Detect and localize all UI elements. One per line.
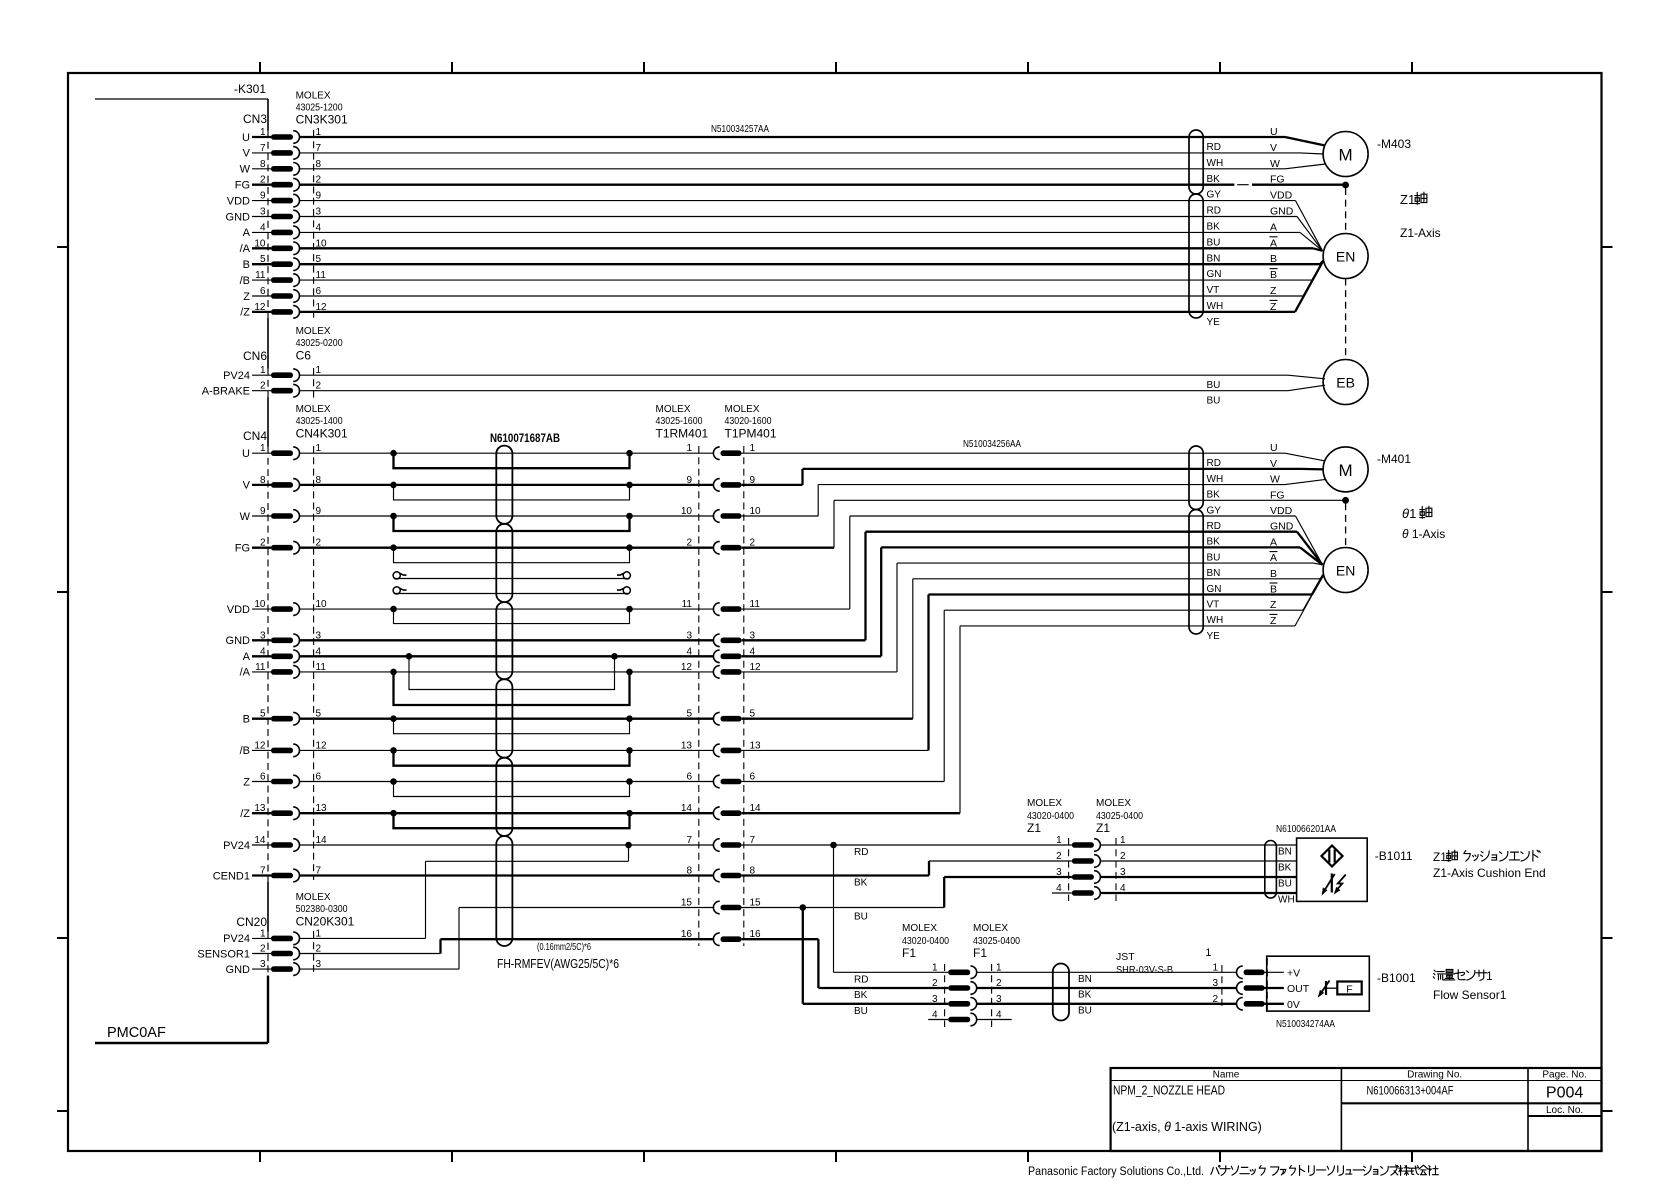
K301 bottom edge <box>95 1042 268 1044</box>
svg-text:EN: EN <box>1336 563 1355 579</box>
svg-text:MOLEX: MOLEX <box>296 326 331 337</box>
svg-text:T1RM401: T1RM401 <box>656 427 709 441</box>
svg-text:GND: GND <box>1270 521 1294 533</box>
wire BK to Z1.2 <box>929 860 1072 862</box>
Z1 boundary dashed left <box>1068 838 1070 901</box>
svg-text:1: 1 <box>1205 947 1211 959</box>
svg-text:W: W <box>240 164 251 176</box>
svg-text:3: 3 <box>260 959 266 970</box>
svg-text:1: 1 <box>686 443 692 454</box>
svg-text:Z1: Z1 <box>1433 850 1447 864</box>
svg-text:GND: GND <box>1270 206 1294 218</box>
twist loop VDD <box>394 609 630 624</box>
svg-text:EB: EB <box>1336 375 1355 391</box>
svg-text:12: 12 <box>254 740 266 751</box>
K301 boundary dashed at CN3 <box>267 131 269 319</box>
svg-text:WH: WH <box>1207 301 1224 312</box>
wires Z1 to B1011 <box>1101 844 1297 846</box>
svg-text:2: 2 <box>260 944 266 955</box>
cable shield Z1 motor <box>1189 130 1203 194</box>
svg-text:EN: EN <box>1336 249 1355 265</box>
svg-text:BK: BK <box>1278 863 1292 874</box>
svg-text:FG: FG <box>1270 489 1285 501</box>
svg-text:FG: FG <box>235 180 250 192</box>
svg-text:VT: VT <box>1207 600 1220 611</box>
svg-text:11: 11 <box>255 662 266 673</box>
svg-text:1: 1 <box>316 928 322 939</box>
spare wire <box>394 578 630 580</box>
wire θ1 GND staircase <box>742 639 866 641</box>
svg-text:4: 4 <box>316 222 322 233</box>
footer japanese company name <box>1211 1166 1220 1175</box>
svg-text:9: 9 <box>686 475 692 486</box>
svg-text:V: V <box>1270 142 1277 154</box>
wire CN6 A-BRAKE to EB <box>300 390 1288 392</box>
junction PV24 branch <box>625 842 632 849</box>
svg-text:VDD: VDD <box>1270 505 1293 517</box>
svg-text:FH-RMFEV(AWG25/5C)*6: FH-RMFEV(AWG25/5C)*6 <box>497 956 619 971</box>
svg-text:1: 1 <box>316 443 322 454</box>
svg-text:BU: BU <box>1207 396 1221 407</box>
svg-text:-B1001: -B1001 <box>1377 971 1416 985</box>
svg-text:U: U <box>242 132 250 144</box>
svg-text:PV24: PV24 <box>223 840 250 852</box>
svg-text:M: M <box>1339 461 1353 480</box>
svg-text:F1: F1 <box>973 946 987 960</box>
K301 boundary solid <box>267 882 269 932</box>
wire CN3 V to M403 <box>300 152 1300 154</box>
svg-text:13: 13 <box>681 740 693 751</box>
svg-text:43020-1600: 43020-1600 <box>725 416 772 427</box>
svg-text:BN: BN <box>1278 847 1292 858</box>
svg-text:N510034256AA: N510034256AA <box>963 438 1021 450</box>
svg-text:Z1: Z1 <box>1400 192 1415 207</box>
B1011 photo sensor icon <box>1331 874 1333 893</box>
svg-text:1: 1 <box>750 443 756 454</box>
svg-text:VT: VT <box>1207 285 1220 296</box>
svg-text:43025-1600: 43025-1600 <box>656 416 703 427</box>
svg-text:6: 6 <box>750 772 756 783</box>
cable shield JST <box>1053 964 1069 1021</box>
svg-text:0V: 0V <box>1287 999 1300 1011</box>
svg-text:7: 7 <box>686 835 692 846</box>
svg-text:VDD: VDD <box>227 604 250 616</box>
svg-text:15: 15 <box>681 898 693 909</box>
svg-text:Z: Z <box>1270 615 1277 627</box>
svg-text:-M401: -M401 <box>1377 452 1411 466</box>
svg-text:10: 10 <box>681 506 693 517</box>
axis dashed link M401-EN <box>1345 503 1347 547</box>
encoder EN (θ1) <box>1323 548 1368 593</box>
wire CN4 GND <box>300 639 714 641</box>
svg-text:10: 10 <box>254 599 266 610</box>
cable shield B1011 <box>1265 841 1277 899</box>
svg-text:WH: WH <box>1207 474 1224 485</box>
svg-text:Page. No.: Page. No. <box>1542 1070 1586 1081</box>
svg-text:BU: BU <box>1278 879 1292 890</box>
svg-text:MOLEX: MOLEX <box>1096 798 1131 809</box>
svg-text:MOLEX: MOLEX <box>973 923 1008 934</box>
svg-text:A: A <box>1270 552 1277 564</box>
CN20K301 mating boundary dashed <box>313 931 315 976</box>
svg-text:2: 2 <box>260 381 266 392</box>
spare hook left <box>393 587 400 594</box>
svg-text:CN4K301: CN4K301 <box>296 427 348 441</box>
svg-text:θ 1-Axis: θ 1-Axis <box>1402 527 1445 541</box>
twist loop W <box>394 516 630 531</box>
wire CN3 Z to EN <box>300 295 1303 297</box>
svg-text:11: 11 <box>316 270 327 281</box>
svg-text:10: 10 <box>750 506 762 517</box>
svg-text:1: 1 <box>996 962 1002 973</box>
svg-text:(0.16mm2/5C)*6: (0.16mm2/5C)*6 <box>537 941 591 953</box>
svg-text:CN3: CN3 <box>243 112 267 126</box>
junction BU branch <box>800 904 807 911</box>
axis dashed link M403-EN <box>1345 188 1347 233</box>
wire CEND1/BK <box>742 874 929 876</box>
wire θ1 U <box>742 452 1285 454</box>
K301 boundary dashed at CN4 <box>267 447 269 883</box>
svg-text:Z: Z <box>243 776 250 788</box>
svg-text:RD: RD <box>1207 521 1221 532</box>
svg-text:8: 8 <box>686 866 692 877</box>
FG junction node <box>1342 182 1349 189</box>
wire CN4 VDD <box>300 608 714 610</box>
svg-text:B: B <box>1270 269 1277 281</box>
node K301 board boundary <box>95 98 268 100</box>
wire θ1 B staircase <box>742 718 913 720</box>
svg-text:BK: BK <box>1207 174 1221 185</box>
svg-text:CN20K301: CN20K301 <box>296 915 355 929</box>
svg-text:VDD: VDD <box>227 195 250 207</box>
twist loop /A <box>394 672 630 705</box>
label θ1-jiku <box>1420 506 1432 518</box>
B1001 flow icon <box>1325 981 1327 995</box>
wire CN4 /Z <box>300 812 714 814</box>
svg-text:VDD: VDD <box>1270 190 1293 202</box>
wire θ1 W staircase <box>742 515 819 517</box>
svg-text:BK: BK <box>1207 537 1221 548</box>
CN3K301 mating boundary dashed <box>313 130 315 318</box>
svg-text:V: V <box>243 480 251 492</box>
F1 boundary dashed right <box>991 964 993 1027</box>
axis dashed link EN-EB <box>1345 279 1347 360</box>
svg-text:N610066201AA: N610066201AA <box>1276 823 1336 835</box>
wire CN6 PV24 to EB <box>300 374 1288 376</box>
svg-text:Z: Z <box>1270 599 1277 611</box>
svg-text:2: 2 <box>1120 851 1126 862</box>
svg-text:A: A <box>243 651 251 663</box>
motor M403 <box>1323 132 1368 177</box>
svg-text:N510034257AA: N510034257AA <box>711 123 769 135</box>
svg-text:502380-0300: 502380-0300 <box>296 904 348 915</box>
svg-text:CN6: CN6 <box>243 349 267 363</box>
svg-text:9: 9 <box>260 191 266 202</box>
svg-text:BN: BN <box>1207 568 1221 579</box>
svg-text:BU: BU <box>1207 552 1221 563</box>
twist loop Z <box>394 782 630 797</box>
svg-text:SHR-03V-S-B: SHR-03V-S-B <box>1116 964 1173 976</box>
wire PV24/RD to Z1.1 <box>742 844 1072 846</box>
svg-text:2: 2 <box>1056 851 1062 862</box>
svg-text:MOLEX: MOLEX <box>296 91 331 102</box>
svg-text:BU: BU <box>1207 380 1221 391</box>
svg-text:4: 4 <box>996 1010 1002 1021</box>
twist loop V <box>394 485 630 500</box>
wire CN20.3 GND to row15 <box>300 968 459 970</box>
svg-text:N610066313+004AF: N610066313+004AF <box>1367 1084 1454 1098</box>
svg-text:RD: RD <box>1207 206 1221 217</box>
svg-text:YE: YE <box>1207 317 1221 328</box>
svg-text:P004: P004 <box>1546 1085 1583 1102</box>
svg-text:9: 9 <box>260 506 266 517</box>
svg-text:W: W <box>1270 474 1280 486</box>
svg-text:7: 7 <box>750 835 756 846</box>
svg-text:T1PM401: T1PM401 <box>725 427 777 441</box>
svg-text:12: 12 <box>681 662 693 673</box>
svg-text:3: 3 <box>932 994 938 1005</box>
svg-text:3: 3 <box>686 630 692 641</box>
svg-text:1: 1 <box>1120 835 1126 846</box>
svg-text:GY: GY <box>1207 190 1222 201</box>
flow sensor B1001 box <box>1267 956 1370 1011</box>
svg-text:Z: Z <box>1270 301 1277 313</box>
wire BU to Z1.3 <box>944 876 1072 878</box>
svg-text:JST: JST <box>1116 951 1135 963</box>
spare hook right <box>623 587 630 594</box>
svg-text:CN4: CN4 <box>243 429 267 443</box>
svg-text:B: B <box>243 259 250 271</box>
svg-text:2: 2 <box>316 944 322 955</box>
svg-text:RD: RD <box>854 847 868 858</box>
svg-text:RD: RD <box>1207 458 1221 469</box>
svg-text:3: 3 <box>260 207 266 218</box>
wire CN4 FG <box>300 547 714 549</box>
svg-text:7: 7 <box>260 143 266 154</box>
svg-text:PV24: PV24 <box>223 370 250 382</box>
svg-text:Name: Name <box>1213 1070 1240 1081</box>
svg-text:/Z: /Z <box>240 307 250 319</box>
wire CN3 U to M403 <box>300 136 1285 138</box>
svg-text:CEND1: CEND1 <box>213 870 250 882</box>
svg-text:GND: GND <box>226 635 251 647</box>
svg-text:W: W <box>1270 158 1280 170</box>
svg-text:RD: RD <box>1207 142 1221 153</box>
svg-text:Z1: Z1 <box>1096 821 1110 835</box>
svg-text:-K301: -K301 <box>234 82 266 96</box>
K301 boundary solid <box>267 318 269 369</box>
svg-text:-M403: -M403 <box>1377 137 1411 151</box>
svg-text:V: V <box>243 148 251 160</box>
wire CN3 /B to EN <box>300 279 1312 281</box>
svg-text:9: 9 <box>316 191 322 202</box>
svg-text:14: 14 <box>681 803 693 814</box>
wire CN4 /B <box>300 749 714 751</box>
svg-text:1: 1 <box>1212 962 1218 973</box>
svg-text:YE: YE <box>1207 631 1221 642</box>
svg-text:12: 12 <box>316 740 328 751</box>
cable shield θ1 motor <box>1189 446 1203 510</box>
svg-text:BU: BU <box>854 912 868 923</box>
svg-text:A: A <box>1270 536 1277 548</box>
svg-text:F1: F1 <box>902 946 916 960</box>
svg-text:RD: RD <box>854 974 868 985</box>
wire CN3 /A to EN <box>300 247 1313 249</box>
svg-text:15: 15 <box>750 898 762 909</box>
CN4K301 mating boundary dashed <box>313 446 315 880</box>
wire θ1 /A staircase <box>742 671 897 673</box>
sensor B1011 box <box>1297 838 1368 901</box>
wire OUT <box>1264 987 1284 989</box>
svg-text:-B1011: -B1011 <box>1375 849 1413 863</box>
wire CN4 W <box>300 515 714 517</box>
K301 boundary solid segment <box>267 976 269 1044</box>
svg-text:1: 1 <box>1056 835 1062 846</box>
junction RD branch <box>830 842 837 849</box>
svg-text:8: 8 <box>316 159 322 170</box>
svg-text:θ1: θ1 <box>1402 506 1416 521</box>
svg-text:6: 6 <box>316 772 322 783</box>
svg-text:W: W <box>240 511 251 523</box>
svg-text:WH: WH <box>1207 158 1224 169</box>
svg-text:BK: BK <box>1078 990 1092 1001</box>
svg-text:1: 1 <box>260 928 266 939</box>
wire CN3 B to EN <box>300 263 1320 265</box>
svg-text:M: M <box>1339 146 1353 165</box>
svg-text:U: U <box>1270 126 1278 138</box>
svg-text:2: 2 <box>932 978 938 989</box>
motor M401 <box>1323 447 1368 492</box>
cable shield θ1 encoder <box>1189 510 1203 635</box>
svg-text:BN: BN <box>1207 253 1221 264</box>
svg-text:6: 6 <box>260 286 266 297</box>
wire CN4 B <box>300 718 714 720</box>
svg-text:FG: FG <box>235 543 250 555</box>
svg-text:MOLEX: MOLEX <box>296 404 331 415</box>
F1 boundary dashed left <box>944 964 946 1027</box>
svg-text:Panasonic Factory Solutions Co: Panasonic Factory Solutions Co.,Ltd. <box>1028 1166 1204 1178</box>
svg-text:B: B <box>1270 568 1277 580</box>
svg-text:3: 3 <box>1056 867 1062 878</box>
wire WH stub Z1.4 <box>1052 892 1072 894</box>
svg-text:MOLEX: MOLEX <box>902 923 937 934</box>
svg-text:Drawing No.: Drawing No. <box>1407 1070 1462 1081</box>
wire θ1 FG staircase <box>742 547 834 549</box>
wire CN4 Z <box>300 781 714 783</box>
svg-text:B: B <box>243 714 250 726</box>
svg-text:A: A <box>1270 221 1277 233</box>
spare wire <box>394 593 630 595</box>
svg-text:/B: /B <box>240 275 250 287</box>
svg-text:3: 3 <box>316 207 322 218</box>
twist loop /B <box>394 750 630 765</box>
twist loop B <box>394 719 630 734</box>
svg-text:43025-0200: 43025-0200 <box>296 338 343 349</box>
svg-text:V: V <box>1270 458 1277 470</box>
svg-text:1: 1 <box>1486 969 1493 983</box>
svg-text:14: 14 <box>254 835 266 846</box>
K301 boundary solid <box>267 99 269 131</box>
svg-text:CN3K301: CN3K301 <box>296 113 348 127</box>
svg-text:11: 11 <box>750 599 761 610</box>
svg-text:WH: WH <box>1278 895 1295 906</box>
svg-text:/A: /A <box>240 667 251 679</box>
wire row15/BU <box>742 907 945 909</box>
B1001 boundary dashed <box>1266 958 1268 1010</box>
svg-text:F: F <box>1346 983 1352 995</box>
svg-text:2: 2 <box>1212 994 1218 1005</box>
svg-text:2: 2 <box>316 381 322 392</box>
wire RD drop to F1.1 <box>833 845 835 972</box>
FG break dash <box>1237 184 1249 186</box>
svg-text:SENSOR1: SENSOR1 <box>197 948 250 960</box>
frame zone tick marks <box>259 62 261 73</box>
svg-text:A: A <box>1270 237 1277 249</box>
svg-text:10: 10 <box>316 599 328 610</box>
svg-text:4: 4 <box>260 222 266 233</box>
wire row16/BK <box>742 938 819 940</box>
wire CN3 FG <box>300 184 1235 186</box>
svg-text:MOLEX: MOLEX <box>296 892 331 903</box>
wire CN4 V <box>300 484 714 486</box>
twist loop FG <box>394 548 630 563</box>
SHR boundary dashed <box>1221 965 1223 1009</box>
svg-text:1: 1 <box>260 365 266 376</box>
wire θ1 /B staircase <box>742 749 929 751</box>
svg-text:43025-1400: 43025-1400 <box>296 416 343 427</box>
svg-text:FG: FG <box>1270 174 1285 186</box>
svg-text:A: A <box>243 227 251 239</box>
wire CN3 W to M403 <box>300 168 1285 170</box>
svg-text:N510034274AA: N510034274AA <box>1276 1018 1335 1030</box>
spare hook left <box>393 572 400 579</box>
svg-text:6: 6 <box>686 772 692 783</box>
svg-text:Z: Z <box>243 291 250 303</box>
svg-text:1: 1 <box>316 365 322 376</box>
encoder EN (Z1) <box>1323 234 1368 279</box>
wire BU drop to F1.3 <box>802 908 804 1004</box>
wire CN3 GND to EN <box>300 216 1297 218</box>
wire CN3 /Z to EN <box>300 311 1295 313</box>
wire CN20.1 PV24 riser <box>300 937 426 939</box>
svg-text:Flow Sensor1: Flow Sensor1 <box>1433 988 1507 1002</box>
wire θ1 VDD staircase <box>742 608 850 610</box>
svg-text:Z1-Axis Cushion End: Z1-Axis Cushion End <box>1433 866 1546 880</box>
svg-text:11: 11 <box>682 599 693 610</box>
svg-text:/Z: /Z <box>240 808 250 820</box>
wire CN3 VDD to EN <box>300 200 1296 202</box>
wire θ1 A staircase <box>742 655 882 657</box>
cable shield Z1 encoder <box>1189 194 1203 318</box>
svg-text:12: 12 <box>750 662 762 673</box>
svg-text:1: 1 <box>932 962 938 973</box>
wire +V <box>1264 971 1284 973</box>
svg-text:A-BRAKE: A-BRAKE <box>202 386 250 398</box>
svg-text:1: 1 <box>260 443 266 454</box>
wire CN4 /A <box>300 671 714 673</box>
svg-text:MOLEX: MOLEX <box>725 404 760 415</box>
wire θ1 V staircase <box>742 484 803 486</box>
C6 mating boundary dashed <box>313 368 315 398</box>
K301 boundary dashed at CN20 <box>267 932 269 976</box>
svg-text:N610071687AB: N610071687AB <box>490 433 560 445</box>
svg-text:6: 6 <box>260 772 266 783</box>
svg-text:5: 5 <box>686 709 692 720</box>
brake EB <box>1323 360 1368 405</box>
svg-text:C6: C6 <box>296 349 312 363</box>
wires F1 to SHR connector <box>977 971 1236 973</box>
svg-text:7: 7 <box>316 143 322 154</box>
